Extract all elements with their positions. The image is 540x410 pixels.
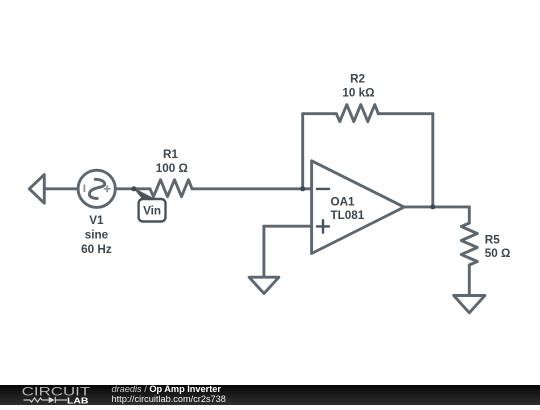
svg-text:R1: R1 <box>163 148 178 161</box>
svg-text:OA1: OA1 <box>331 196 356 209</box>
svg-text:Vin: Vin <box>143 205 161 218</box>
svg-text:R5: R5 <box>485 233 500 246</box>
svg-text:http://circuitlab.com/cr2s738: http://circuitlab.com/cr2s738 <box>112 394 226 404</box>
svg-text:R2: R2 <box>350 73 365 86</box>
svg-text:50 Ω: 50 Ω <box>485 247 511 260</box>
svg-text:10 kΩ: 10 kΩ <box>342 87 374 100</box>
svg-text:100 Ω: 100 Ω <box>156 162 188 175</box>
svg-text:V1: V1 <box>89 214 104 227</box>
svg-text:TL081: TL081 <box>331 209 365 222</box>
svg-text:sine: sine <box>85 229 109 242</box>
svg-text:draedis / Op Amp Inverter: draedis / Op Amp Inverter <box>112 384 222 394</box>
svg-text:LAB: LAB <box>67 396 89 405</box>
svg-text:60 Hz: 60 Hz <box>81 243 112 256</box>
